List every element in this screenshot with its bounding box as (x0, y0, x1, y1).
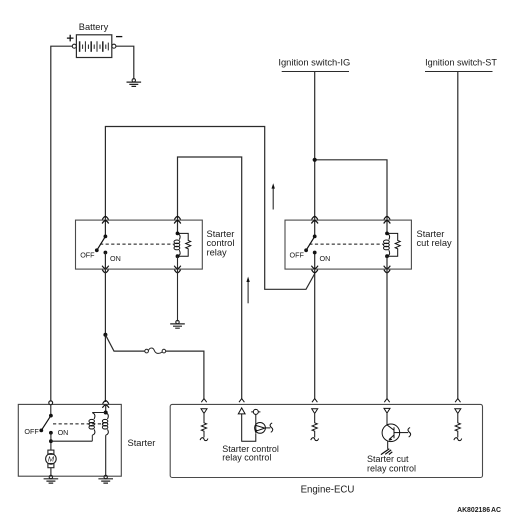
wire control relay coil to ECU control line (178, 157, 242, 399)
svg-text:OFF: OFF (290, 251, 305, 260)
dashed link control relay (100, 243, 174, 245)
dashed link starter (53, 423, 104, 425)
connector fork ECU pin4 (384, 399, 389, 403)
wire IG branch to cut relay coil (315, 160, 387, 234)
relay U2 box Starter cut relay (285, 220, 411, 269)
node Ignition switch-IG (278, 57, 350, 72)
svg-text:Battery: Battery (79, 22, 109, 32)
switch cut relay (304, 235, 316, 255)
wire control relay output junction to starter (104, 334, 106, 402)
svg-text:M: M (48, 455, 55, 464)
connector fork ECU pin3 (312, 399, 317, 403)
resistor parallel control relay (178, 233, 191, 256)
svg-text:Ignition switch-IG: Ignition switch-IG (278, 57, 350, 68)
resistor ECU pin3 (311, 414, 319, 441)
transistor Q2 starter cut relay control (382, 414, 408, 449)
pin2 output arrow up (238, 408, 256, 441)
battery negative terminal (112, 44, 116, 48)
squiggle Q2 base (408, 428, 411, 438)
connector crossing control relay bottom left (102, 266, 109, 273)
svg-text:AK802186AC: AK802186AC (457, 507, 501, 514)
wire branch to ECU sense (105, 335, 203, 399)
resistor ECU pin5 (454, 414, 462, 441)
switch control relay (95, 235, 107, 255)
junction starter motor/coil return (49, 439, 53, 443)
coil control relay (174, 232, 180, 259)
connector crossing cut relay top coil (384, 216, 391, 223)
ground starter solenoid (98, 475, 113, 483)
battery plus sign (67, 35, 74, 42)
connector crossing control relay top left (102, 216, 109, 223)
wire battery- to ground (116, 46, 134, 79)
svg-text:ON: ON (110, 254, 121, 263)
svg-text:Engine-ECU: Engine-ECU (301, 484, 355, 495)
wire battery+ to starter (51, 46, 73, 401)
pin3 input arrow (312, 409, 318, 414)
svg-text:relay control: relay control (367, 464, 416, 474)
svg-text:relay control: relay control (222, 452, 271, 462)
connector fork ECU pin1 (201, 399, 206, 403)
resistor parallel cut relay (387, 233, 400, 256)
connector fork ECU pin2 (239, 399, 244, 403)
svg-text:cut relay: cut relay (417, 238, 452, 248)
dashed link cut relay (309, 243, 383, 245)
svg-text:Ignition switch-ST: Ignition switch-ST (425, 58, 497, 68)
wire control relay ON output (104, 253, 106, 335)
connector fork ECU pin5 (455, 399, 460, 403)
svg-text:OFF: OFF (24, 427, 39, 436)
svg-text:OFF: OFF (80, 251, 95, 260)
battery B1 (76, 35, 111, 58)
pin4 input arrow (384, 408, 390, 413)
connector crossing cut relay bottom left (311, 266, 318, 273)
connector crossing starter solenoid input (102, 401, 109, 408)
connector crossing control relay bottom coil (174, 266, 181, 273)
starter M box (18, 404, 121, 476)
ground Q2 emitter hatched (381, 449, 392, 455)
ECU box Engine-ECU (170, 404, 482, 477)
wire ST down to Engine-ECU (457, 72, 459, 399)
junction IG/coil (313, 158, 317, 162)
ground starter motor (44, 475, 59, 483)
wire control relay coil to ground (177, 256, 179, 321)
connector crossing cut relay top left (311, 216, 318, 223)
svg-text:Starter: Starter (128, 438, 156, 448)
motor M starter (46, 450, 57, 476)
ground control relay coil (170, 320, 185, 328)
inline connector joint (145, 348, 166, 353)
svg-text:relay: relay (207, 248, 228, 258)
wire cut relay coil to ECU (386, 256, 388, 399)
svg-text:ON: ON (320, 254, 331, 263)
solenoid starter coils (89, 404, 108, 476)
connector crossing cut relay bottom coil (384, 266, 391, 273)
wire IG down to starter cut relay (314, 72, 316, 237)
junction control output (103, 333, 107, 337)
coil cut relay (384, 232, 390, 259)
wire starter ON to motor (50, 433, 52, 450)
pin5 input arrow (455, 409, 461, 414)
wire cut relay output down to ECU (314, 253, 316, 399)
transistor Q1 starter control relay control (251, 409, 270, 433)
arrow up (control direction) (246, 277, 249, 304)
battery minus sign (116, 36, 122, 38)
arrow up (feed direction) (272, 183, 275, 209)
svg-text:ON: ON (58, 428, 69, 437)
connector crossing control relay top coil (174, 216, 181, 223)
wire cut relay output loop to control relay input (105, 127, 314, 290)
terminal starter battery input (49, 401, 53, 405)
wire coil return (51, 440, 92, 442)
ground battery (127, 79, 142, 87)
battery positive terminal (72, 44, 76, 48)
pin1 input arrow (201, 409, 207, 414)
relay U1 box Starter control relay (76, 220, 203, 269)
node Ignition switch-ST (425, 58, 497, 72)
squiggle Q1 collector (270, 423, 273, 433)
resistor ECU pin1 (200, 414, 208, 441)
switch starter (39, 405, 52, 435)
